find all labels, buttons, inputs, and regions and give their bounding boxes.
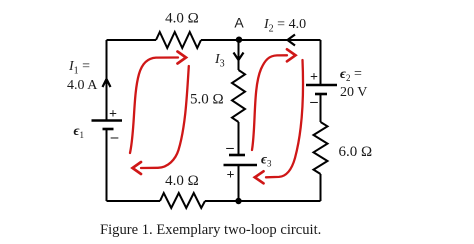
svg-text:4.0 Ω: 4.0 Ω: [165, 173, 199, 189]
svg-text:5.0 Ω: 5.0 Ω: [190, 92, 224, 108]
svg-text:ϵ2 =: ϵ2 =: [340, 67, 362, 84]
node A dot: [236, 37, 242, 43]
wire top resistor to top-right corner: [201, 39, 321, 41]
svg-text:–: –: [309, 94, 318, 110]
bottom wire right segment: [205, 200, 321, 202]
wire between E2 and R-right: [320, 94, 322, 122]
svg-text:I3: I3: [214, 52, 225, 70]
svg-text:I1 =: I1 =: [68, 59, 90, 77]
arrow I1 (up on left wire): [103, 79, 111, 87]
battery E1 long plate (+): [92, 119, 123, 122]
red loop1 bottom arrowhead: [133, 162, 142, 174]
resistor R-top 4.0 ohm: [156, 32, 201, 48]
arrow I2 (left-pointing on top wire): [288, 35, 296, 46]
svg-text:ϵ3: ϵ3: [261, 153, 272, 169]
middle wire between R and E3: [238, 122, 240, 155]
resistor R-bottom 4.0 ohm: [160, 193, 205, 208]
wire right lower: [320, 174, 322, 201]
resistor R-right 6.0 ohm: [314, 122, 328, 174]
arrow I3 (down on middle wire): [234, 53, 244, 61]
middle wire lower: [238, 165, 240, 201]
svg-text:+: +: [227, 168, 235, 183]
svg-text:+: +: [109, 107, 117, 122]
svg-text:4.0 Ω: 4.0 Ω: [165, 11, 199, 27]
svg-text:ϵ1: ϵ1: [74, 124, 85, 140]
red loop1 top arrowhead: [178, 52, 187, 64]
bottom wire left segment: [107, 200, 161, 202]
middle wire upper: [238, 40, 240, 70]
battery E3 short plate (-): [229, 154, 245, 157]
red loop1 left arc: [130, 58, 178, 154]
svg-text:Figure 1. Exemplary two-loop c: Figure 1. Exemplary two-loop circuit.: [100, 222, 321, 238]
battery E2 long plate (+): [306, 84, 337, 87]
svg-text:I2 = 4.0: I2 = 4.0: [263, 17, 306, 35]
red loop2 top arrowhead: [287, 49, 296, 61]
svg-text:+: +: [310, 70, 318, 85]
svg-text:–: –: [225, 140, 234, 156]
junction dot bottom: [235, 198, 241, 204]
svg-text:–: –: [110, 130, 119, 146]
wire top-left to top resistor: [107, 39, 157, 41]
left wire lower: [106, 129, 108, 201]
battery E1 short plate (-): [103, 128, 114, 131]
svg-text:6.0 Ω: 6.0 Ω: [339, 144, 373, 160]
svg-text:A: A: [234, 15, 244, 31]
red loop2 right arc: [266, 60, 303, 177]
resistor R-middle 5.0 ohm: [232, 70, 245, 122]
left wire upper: [106, 40, 108, 121]
svg-text:4.0 A: 4.0 A: [67, 78, 98, 93]
wire right side upper: [320, 40, 322, 85]
svg-text:20 V: 20 V: [340, 85, 367, 100]
battery E2 short plate (-): [315, 93, 327, 96]
red loop1 right arc: [141, 66, 189, 168]
red loop2 left arc: [252, 55, 287, 150]
battery E3 long plate (+): [224, 164, 258, 167]
red loop2 bottom arrowhead: [255, 171, 264, 183]
